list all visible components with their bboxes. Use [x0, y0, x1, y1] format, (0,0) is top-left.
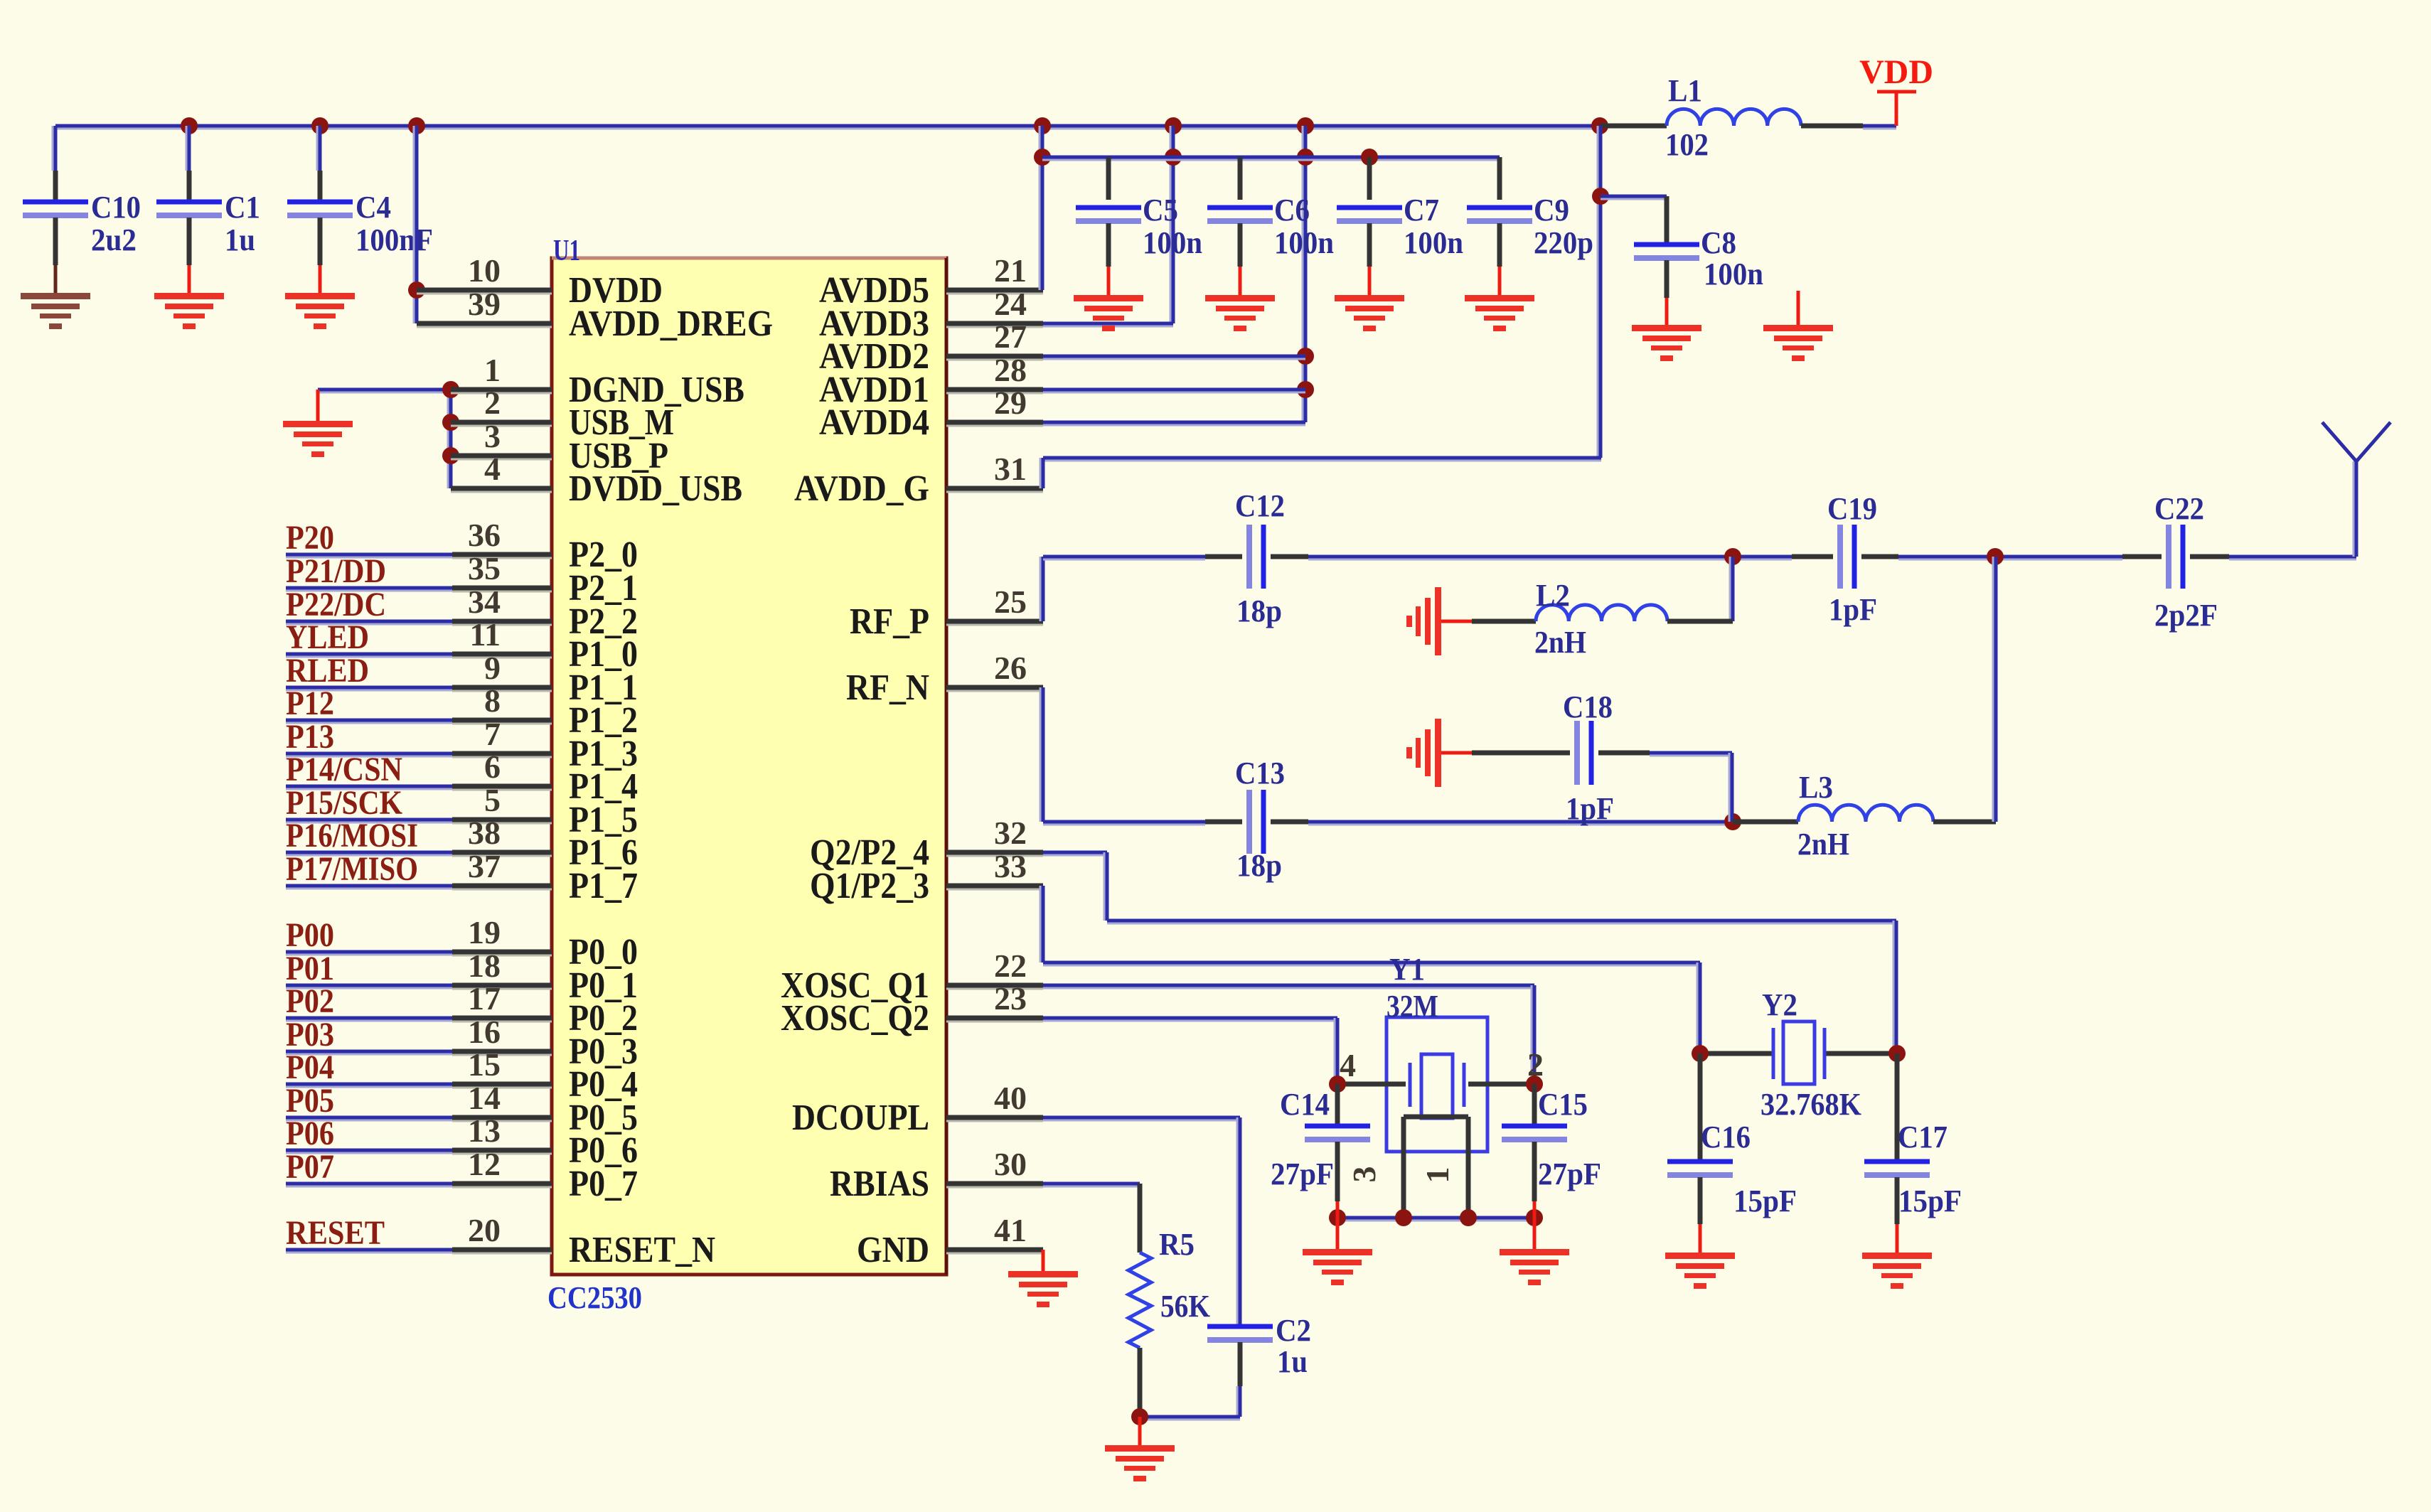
svg-text:P14/CSN: P14/CSN — [286, 751, 402, 788]
wire AVDD2/AVDD1/AVDD4 to rail — [1043, 126, 1314, 425]
svg-text:25: 25 — [994, 584, 1027, 620]
svg-text:R5: R5 — [1159, 1227, 1195, 1262]
svg-text:27pF: 27pF — [1538, 1157, 1601, 1191]
svg-text:32.768K: 32.768K — [1761, 1087, 1861, 1122]
ground for C7 — [1335, 295, 1404, 331]
svg-text:CC2530: CC2530 — [547, 1280, 642, 1315]
capacitor C9 220p — [1467, 157, 1593, 295]
wire RF_P(25) up to RF line — [1040, 557, 1043, 621]
wire net P01 — [286, 950, 452, 988]
pin 19 stub (left row 20) — [452, 914, 552, 955]
svg-text:C10: C10 — [91, 190, 141, 225]
capacitor C17 15pF — [1864, 1053, 1962, 1253]
pin 35 stub (left row 9) — [452, 550, 552, 591]
pin 33 stub (right row 18) — [946, 848, 1043, 889]
svg-text:2p2F: 2p2F — [2154, 598, 2218, 633]
ground for C1 — [154, 293, 224, 329]
svg-text:XOSC_Q2: XOSC_Q2 — [781, 998, 929, 1039]
pin 20 stub (left row 29) — [452, 1212, 552, 1253]
pin 8 stub (left row 13) — [452, 682, 552, 724]
svg-text:100n: 100n — [1404, 225, 1463, 260]
svg-text:3: 3 — [484, 418, 501, 454]
svg-text:C14: C14 — [1280, 1087, 1330, 1122]
ground for C9 — [1465, 295, 1534, 331]
pin 1 stub (left row 3) — [451, 352, 552, 393]
pin 21 stub (right row 0) — [946, 252, 1043, 294]
ground for C5 — [1074, 295, 1143, 331]
svg-text:27: 27 — [994, 318, 1027, 355]
svg-text:C6: C6 — [1274, 193, 1310, 227]
capacitor C18 1pF — [1472, 690, 1732, 826]
ground for C14 — [1303, 1218, 1372, 1285]
capacitor C22 2p2F — [2154, 491, 2218, 633]
pin 5 stub (left row 16) — [452, 782, 552, 823]
pin 9 stub (left row 12) — [452, 650, 552, 691]
svg-text:9: 9 — [484, 650, 501, 686]
svg-text:L1: L1 — [1668, 73, 1702, 108]
wire net P03 — [286, 1016, 452, 1054]
wire net P07 — [286, 1148, 452, 1186]
pin 27 stub (right row 2) — [946, 318, 1043, 360]
svg-text:1u: 1u — [225, 222, 255, 257]
pin 23 stub (right row 22) — [946, 980, 1043, 1022]
svg-text:C9: C9 — [1534, 193, 1569, 227]
svg-text:C19: C19 — [1827, 491, 1877, 526]
wire XOSC_Q1(22) to Y1 pin2 — [1043, 985, 1534, 1084]
inductor L3 2nH — [1733, 557, 1996, 862]
wire net P02 — [286, 982, 452, 1021]
svg-text:P12: P12 — [286, 685, 334, 722]
svg-text:13: 13 — [468, 1112, 501, 1149]
svg-text:39: 39 — [468, 286, 501, 322]
capacitor C7 100n — [1337, 157, 1463, 295]
svg-text:100nF: 100nF — [356, 222, 433, 257]
svg-text:C15: C15 — [1538, 1087, 1588, 1122]
svg-text:AVDD_G: AVDD_G — [794, 468, 929, 509]
svg-text:C2: C2 — [1276, 1313, 1311, 1348]
svg-text:21: 21 — [994, 252, 1027, 289]
svg-text:3: 3 — [1346, 1167, 1382, 1183]
wire AVDD5(21) to rail — [1034, 126, 1051, 290]
svg-text:P06: P06 — [286, 1115, 334, 1152]
svg-text:18p: 18p — [1236, 848, 1282, 883]
svg-text:11: 11 — [470, 616, 501, 653]
svg-text:35: 35 — [468, 550, 501, 586]
svg-text:Q1/P2_3: Q1/P2_3 — [810, 866, 929, 906]
svg-text:VDD: VDD — [1859, 53, 1933, 91]
pin 24 stub (right row 1) — [946, 286, 1043, 327]
svg-text:P04: P04 — [286, 1049, 334, 1086]
pin 16 stub (left row 23) — [452, 1014, 552, 1055]
svg-text:7: 7 — [484, 716, 501, 752]
svg-text:12: 12 — [468, 1146, 501, 1182]
pin 32 stub (right row 17) — [946, 815, 1043, 856]
wire Y1 bottom bus — [1329, 1209, 1543, 1226]
svg-text:RF_N: RF_N — [846, 667, 929, 708]
svg-text:AVDD_DREG: AVDD_DREG — [569, 304, 773, 344]
capacitor C19 1pF — [1827, 491, 1877, 627]
svg-text:15pF: 15pF — [1733, 1184, 1797, 1218]
svg-text:L3: L3 — [1799, 770, 1833, 805]
svg-text:GND: GND — [857, 1230, 929, 1270]
svg-text:1pF: 1pF — [1566, 791, 1614, 826]
power flag VDD — [1859, 53, 1933, 126]
svg-text:36: 36 — [468, 517, 501, 553]
wire net P16/MOSI — [286, 817, 452, 855]
svg-text:1: 1 — [1419, 1167, 1455, 1184]
inductor L1 102 — [1600, 73, 1896, 162]
rotated ground for L2 — [1406, 587, 1472, 655]
svg-text:8: 8 — [484, 682, 501, 719]
antenna — [2322, 422, 2390, 557]
pin 14 stub (left row 25) — [452, 1080, 552, 1121]
wire DGND_USB/USB_M/USB_P/DVDD_USB bus — [318, 381, 459, 488]
pin 17 stub (left row 22) — [452, 980, 552, 1022]
svg-text:30: 30 — [994, 1146, 1027, 1182]
resistor R5 56K — [1128, 1227, 1210, 1425]
svg-text:37: 37 — [468, 848, 501, 884]
pin 13 stub (left row 26) — [452, 1112, 552, 1154]
wire net P21/DD — [286, 552, 452, 591]
svg-text:RBIAS: RBIAS — [830, 1164, 929, 1204]
pin 29 stub (right row 4) — [946, 385, 1043, 426]
pin 28 stub (right row 3) — [946, 352, 1043, 393]
wire net P13 — [286, 718, 452, 756]
wire net P00 — [286, 916, 452, 955]
ground for R5/C2 — [1105, 1417, 1175, 1481]
capacitor C2 1u — [1140, 1313, 1311, 1420]
svg-text:DVDD_USB: DVDD_USB — [569, 468, 742, 509]
capacitor C16 15pF — [1667, 1053, 1797, 1253]
svg-text:C22: C22 — [2154, 491, 2204, 526]
svg-text:41: 41 — [994, 1212, 1027, 1248]
svg-text:14: 14 — [468, 1080, 501, 1116]
capacitor C14 27pF — [1271, 1084, 1370, 1218]
capacitor C15 27pF — [1502, 1084, 1601, 1218]
svg-text:1: 1 — [484, 352, 501, 388]
svg-text:26: 26 — [994, 650, 1027, 686]
pin 12 stub (left row 27) — [452, 1146, 552, 1187]
wire net P22/DC — [286, 586, 452, 624]
svg-text:23: 23 — [994, 980, 1027, 1017]
svg-text:2nH: 2nH — [1797, 827, 1849, 862]
pin 38 stub (left row 17) — [452, 815, 552, 856]
wire DCOUPL(40) to C2 — [1043, 1117, 1240, 1324]
svg-text:YLED: YLED — [286, 618, 369, 656]
floating ground symbol — [1763, 291, 1833, 361]
ground for DGND_USB — [283, 390, 353, 457]
ground for C10 (dark) — [21, 293, 90, 329]
svg-text:L2: L2 — [1536, 578, 1570, 613]
wire VDD to DVDD(10)/AVDD_DREG(39) — [408, 126, 425, 323]
wire VDD top rail — [55, 117, 1608, 134]
rotated ground for C18 — [1406, 719, 1472, 787]
svg-text:RESET_N: RESET_N — [569, 1230, 715, 1270]
svg-text:31: 31 — [994, 451, 1027, 487]
capacitor C5 100n — [1076, 157, 1202, 295]
inductor L2 2nH — [1472, 557, 1733, 660]
U1 interior pin names (right column) — [781, 270, 929, 1270]
svg-text:2: 2 — [1527, 1046, 1544, 1083]
svg-text:29: 29 — [994, 385, 1027, 421]
svg-text:C1: C1 — [225, 190, 260, 225]
wire RF_N(26) down to C13 line — [1040, 687, 1043, 822]
wire net P05 — [286, 1082, 452, 1120]
svg-text:C8: C8 — [1701, 225, 1736, 260]
capacitor C13 18p — [1235, 756, 1285, 883]
svg-text:P21/DD: P21/DD — [286, 552, 386, 590]
svg-text:U1: U1 — [553, 235, 580, 267]
svg-text:20: 20 — [468, 1212, 501, 1248]
pin 31 stub (right row 6) — [946, 451, 1043, 492]
svg-text:4: 4 — [484, 451, 501, 487]
svg-text:6: 6 — [484, 749, 501, 785]
svg-text:Y2: Y2 — [1762, 987, 1797, 1022]
wire net P15/SCK — [286, 784, 452, 822]
svg-text:P00: P00 — [286, 916, 334, 954]
pin 26 stub (right row 12) — [946, 650, 1043, 691]
svg-text:15pF: 15pF — [1898, 1184, 1962, 1218]
pin 30 stub (right row 27) — [946, 1146, 1043, 1187]
pin 10 stub (left row 0) — [417, 252, 552, 294]
svg-text:P02: P02 — [286, 982, 334, 1020]
capacitor C8 100n — [1601, 196, 1763, 325]
wire RF_P line — [1043, 548, 2356, 565]
svg-text:1u: 1u — [1277, 1344, 1308, 1379]
pin 41 stub (right row 29) — [946, 1212, 1043, 1253]
wire Q1/P2_3(33) to Y2 — [1040, 886, 1700, 1053]
svg-text:P1_7: P1_7 — [569, 866, 638, 906]
crystal Y1 32M — [1329, 952, 1544, 1218]
wire RBIAS(30) to R5 — [1043, 1184, 1140, 1253]
pin 37 stub (left row 18) — [452, 848, 552, 889]
svg-text:19: 19 — [468, 914, 501, 950]
svg-text:4: 4 — [1340, 1047, 1356, 1083]
pin 7 stub (left row 14) — [452, 716, 552, 757]
ground for GND(41) — [1008, 1250, 1078, 1307]
svg-text:15: 15 — [468, 1046, 501, 1083]
svg-text:38: 38 — [468, 815, 501, 851]
wire net P12 — [286, 685, 452, 723]
capacitor C1 1u — [156, 126, 260, 294]
pin 39 stub (left row 1) — [417, 286, 552, 327]
svg-text:C18: C18 — [1563, 690, 1613, 724]
svg-text:AVDD4: AVDD4 — [819, 402, 929, 443]
ground for C16 — [1665, 1253, 1735, 1289]
svg-text:100n: 100n — [1143, 225, 1202, 260]
svg-text:100n: 100n — [1274, 225, 1334, 260]
wire net P04 — [286, 1049, 452, 1087]
pin 4 stub (left row 6) — [451, 451, 552, 492]
svg-text:5: 5 — [484, 782, 501, 818]
pin 2 stub (left row 4) — [451, 385, 552, 426]
wire net YLED — [286, 618, 452, 657]
pin 3 stub (left row 5) — [451, 418, 552, 459]
svg-text:1pF: 1pF — [1829, 592, 1877, 627]
pin 34 stub (left row 10) — [452, 584, 552, 625]
svg-text:34: 34 — [468, 584, 501, 620]
wire XOSC_Q2(23) to Y1 pin4 — [1043, 1018, 1337, 1084]
pin 18 stub (left row 21) — [452, 948, 552, 989]
U1 interior pin names (left column) — [569, 270, 773, 1270]
svg-text:C13: C13 — [1235, 756, 1285, 790]
svg-text:C5: C5 — [1143, 193, 1178, 227]
svg-text:C16: C16 — [1701, 1120, 1751, 1154]
svg-text:16: 16 — [468, 1014, 501, 1050]
svg-text:P0_7: P0_7 — [569, 1164, 638, 1204]
capacitor C10 2u2 — [23, 126, 141, 294]
svg-text:P20: P20 — [286, 519, 334, 557]
ground for C8 — [1632, 325, 1701, 361]
svg-text:P07: P07 — [286, 1148, 334, 1186]
svg-text:32M: 32M — [1387, 989, 1438, 1024]
svg-text:18: 18 — [468, 948, 501, 984]
wire net P06 — [286, 1115, 452, 1153]
wire net RESET — [286, 1214, 452, 1253]
svg-text:102: 102 — [1665, 127, 1709, 162]
wire net P17/MISO — [286, 850, 452, 889]
capacitor C6 100n — [1207, 157, 1334, 295]
svg-text:18p: 18p — [1236, 594, 1282, 628]
svg-text:C17: C17 — [1898, 1120, 1948, 1154]
svg-text:2nH: 2nH — [1534, 625, 1586, 660]
pin 22 stub (right row 21) — [946, 948, 1043, 989]
crystal Y2 32.768K — [1692, 987, 1906, 1122]
svg-text:17: 17 — [468, 980, 501, 1017]
ground for C6 — [1205, 295, 1275, 331]
svg-text:P16/MOSI: P16/MOSI — [286, 817, 418, 854]
svg-text:DCOUPL: DCOUPL — [792, 1098, 929, 1138]
svg-text:33: 33 — [994, 848, 1027, 884]
pin 40 stub (right row 25) — [946, 1080, 1043, 1121]
svg-text:56K: 56K — [1160, 1289, 1210, 1324]
svg-text:10: 10 — [468, 252, 501, 289]
svg-text:RF_P: RF_P — [850, 601, 929, 642]
wire VDD branch to C8 and AVDD_G(31) — [1040, 126, 1609, 488]
pin 6 stub (left row 15) — [452, 749, 552, 790]
svg-text:C7: C7 — [1404, 193, 1439, 227]
svg-text:32: 32 — [994, 815, 1027, 851]
wire decoupling sub-bus — [1042, 149, 1500, 166]
svg-text:Y1: Y1 — [1389, 952, 1425, 987]
wire RF_N line — [1043, 813, 1741, 830]
svg-text:28: 28 — [994, 352, 1027, 388]
capacitor C4 100nF — [287, 126, 433, 294]
svg-text:C12: C12 — [1235, 488, 1285, 523]
pin 36 stub (left row 8) — [452, 517, 552, 558]
svg-text:24: 24 — [994, 286, 1027, 322]
op-amp U1 CC2530 IC body — [547, 235, 946, 1315]
svg-text:P17/MISO: P17/MISO — [286, 850, 418, 888]
svg-text:100n: 100n — [1704, 257, 1763, 291]
wire net P20 — [286, 519, 452, 557]
ground for C15 — [1500, 1218, 1569, 1285]
svg-text:22: 22 — [994, 948, 1027, 984]
ground for C17 — [1862, 1253, 1932, 1289]
ground for C4 — [285, 293, 355, 329]
svg-text:C4: C4 — [356, 190, 391, 225]
wire Q2/P2_4(32) to Y2 — [1043, 852, 1896, 1053]
wire net RLED — [286, 652, 452, 690]
pin 11 stub (left row 11) — [452, 616, 552, 658]
pin 25 stub (right row 10) — [946, 584, 1043, 625]
wire net P14/CSN — [286, 751, 452, 789]
svg-text:27pF: 27pF — [1271, 1157, 1334, 1191]
svg-text:2u2: 2u2 — [91, 222, 137, 257]
svg-text:2: 2 — [484, 385, 501, 421]
svg-text:RESET: RESET — [286, 1214, 385, 1252]
wire AVDD3(24) to rail — [1043, 126, 1182, 326]
capacitor C12 18p — [1235, 488, 1285, 628]
svg-text:220p: 220p — [1534, 225, 1593, 260]
svg-text:40: 40 — [994, 1080, 1027, 1116]
pin 15 stub (left row 24) — [452, 1046, 552, 1088]
